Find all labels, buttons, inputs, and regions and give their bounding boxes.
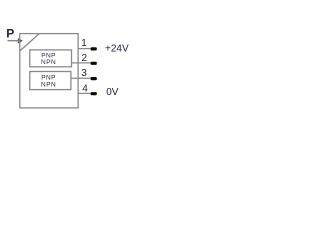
svg-text:PNP: PNP <box>41 75 56 82</box>
sensor outline box <box>20 34 78 108</box>
svg-text:P: P <box>6 27 14 41</box>
svg-text:1: 1 <box>81 38 87 49</box>
svg-text:4: 4 <box>82 83 88 94</box>
svg-text:2: 2 <box>82 53 88 64</box>
background <box>0 0 135 135</box>
svg-text:+24V: +24V <box>105 43 129 54</box>
wire terminal 2 <box>72 62 92 64</box>
svg-text:0V: 0V <box>106 87 119 98</box>
proximity-sensor diagonal <box>20 34 40 51</box>
terminal tick 3 <box>91 77 97 80</box>
svg-text:NPN: NPN <box>41 59 56 66</box>
arrowhead <box>18 39 21 43</box>
output stage box U1 <box>30 50 72 67</box>
output stage box U2 <box>30 72 71 90</box>
svg-text:3: 3 <box>81 68 87 79</box>
terminal tick 1 <box>91 47 97 50</box>
terminal tick 2 <box>91 62 97 65</box>
wire arrow into sensor <box>8 40 21 42</box>
wire terminal 4 <box>78 92 91 94</box>
terminal tick 4 <box>91 92 97 95</box>
wire terminal 1 <box>78 48 91 50</box>
wire terminal 3 <box>71 77 91 79</box>
svg-text:NPN: NPN <box>41 82 56 89</box>
